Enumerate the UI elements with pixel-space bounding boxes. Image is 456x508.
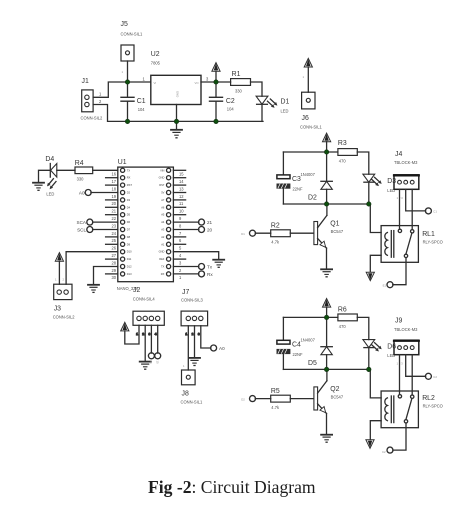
- svg-text:D8: D8: [127, 235, 131, 239]
- wire U2 GND down: [176, 105, 178, 122]
- wire J4 pin2 to node C1: [406, 189, 426, 211]
- transistor Q2 BC547: [314, 369, 344, 434]
- svg-text:R4: R4: [75, 160, 84, 167]
- svg-text:16: 16: [149, 361, 153, 365]
- node C2: [425, 373, 437, 379]
- svg-text:RX: RX: [127, 176, 131, 180]
- wire J7 pin3 to A0 node: [201, 326, 211, 348]
- svg-text:2: 2: [192, 332, 194, 336]
- node A0: [79, 190, 91, 196]
- ground left of U1: [88, 285, 99, 293]
- svg-text:2: 2: [179, 268, 182, 273]
- connector J5 CONN-SIL1: [121, 21, 144, 74]
- regulator U2 7805: [143, 51, 210, 105]
- svg-text:Q2: Q2: [330, 386, 339, 393]
- svg-text:E1: E1: [383, 284, 387, 288]
- svg-text:D1: D1: [281, 99, 290, 106]
- svg-text:1: 1: [143, 77, 146, 82]
- U1 inner pin names: [127, 168, 165, 276]
- relay RL1 RLY-SPCO: [381, 226, 443, 263]
- svg-text:A4: A4: [161, 220, 165, 224]
- svg-text:VI: VI: [154, 81, 157, 85]
- svg-text:J9: J9: [395, 318, 402, 325]
- junction node C2 bottom: [214, 119, 218, 123]
- wire D3 to bottom rail: [368, 182, 370, 204]
- svg-text:D10: D10: [127, 250, 132, 254]
- node A0 right: [211, 345, 225, 351]
- node 21: [199, 219, 213, 225]
- svg-text:GND: GND: [159, 176, 165, 180]
- svg-text:J4: J4: [395, 151, 402, 158]
- svg-text:21: 21: [207, 220, 213, 225]
- svg-text:GND: GND: [176, 91, 180, 97]
- svg-text:J8: J8: [182, 391, 189, 398]
- svg-text:20: 20: [111, 201, 116, 206]
- svg-text:1: 1: [183, 364, 185, 368]
- svg-text:A3: A3: [161, 228, 165, 232]
- svg-text:22NF: 22NF: [293, 352, 304, 357]
- svg-text:C2: C2: [382, 450, 386, 454]
- svg-text:C2: C2: [433, 375, 437, 379]
- capacitor C2 104: [210, 82, 235, 121]
- svg-text:D6: D6: [387, 343, 396, 350]
- svg-text:14: 14: [179, 179, 184, 184]
- wire J1 pin2 to ground rail: [93, 105, 263, 122]
- junction relay1 rail bottom D2: [324, 202, 328, 206]
- svg-text:CONN-SIL2: CONN-SIL2: [81, 116, 104, 121]
- wire R1 to D1: [251, 82, 263, 96]
- svg-text:D7: D7: [127, 228, 131, 232]
- svg-text:Q1: Q1: [330, 221, 339, 228]
- junction relay2 rail top: [324, 315, 328, 319]
- svg-text:J2: J2: [133, 287, 140, 294]
- resistor R1 330: [231, 71, 251, 93]
- svg-text:R6: R6: [338, 306, 347, 313]
- wire U1 pin27 to J3: [66, 252, 118, 285]
- svg-text:D11: D11: [127, 257, 132, 261]
- ground under J7: [189, 358, 200, 366]
- svg-text:U1: U1: [118, 159, 127, 166]
- wire RL2 bottom pin to node E2: [393, 423, 406, 450]
- svg-text:RLY-SPCO: RLY-SPCO: [423, 239, 443, 244]
- svg-text:TBLOCK-M3: TBLOCK-M3: [394, 160, 418, 165]
- svg-text:1: 1: [186, 332, 188, 336]
- svg-text:20: 20: [207, 227, 213, 232]
- connector J2 CONN-SIL4: [133, 287, 165, 336]
- svg-text:GND: GND: [159, 250, 165, 254]
- ground at D4: [33, 183, 44, 191]
- capacitor C1 104: [121, 82, 146, 121]
- wire J4 pin3 to RL1 NO: [411, 189, 413, 229]
- svg-text:RL2: RL2: [422, 395, 435, 402]
- svg-text:R2: R2: [271, 223, 280, 230]
- svg-text:17: 17: [111, 179, 116, 184]
- svg-text:1: 1: [122, 70, 124, 74]
- svg-text:104: 104: [227, 107, 235, 112]
- wire J9 pin3 to RL2 NO: [411, 355, 413, 395]
- power arrow at J2 pin1: [121, 322, 139, 344]
- svg-text:104: 104: [138, 107, 146, 112]
- svg-text:C2: C2: [226, 98, 235, 105]
- svg-text:TBLOCK-M3: TBLOCK-M3: [394, 327, 418, 332]
- svg-text:LED: LED: [281, 109, 289, 114]
- svg-text:2: 2: [63, 278, 65, 282]
- wire U1 pin4 to right ground: [173, 252, 218, 260]
- svg-text:U2: U2: [151, 51, 160, 58]
- svg-text:19: 19: [111, 194, 116, 199]
- svg-text:330: 330: [235, 88, 243, 93]
- wire J4 pin1 to RL1 common: [399, 189, 401, 229]
- wire RL1 bottom pin to node E1: [393, 258, 406, 285]
- svg-text:A0: A0: [219, 346, 225, 351]
- wire SCL to U1: [93, 229, 118, 231]
- svg-text:4.7k: 4.7k: [271, 405, 280, 410]
- svg-text:11: 11: [179, 201, 184, 206]
- svg-text:LED: LED: [46, 191, 54, 196]
- svg-text:R1: R1: [232, 71, 241, 78]
- wire D4 cathode to ground: [39, 170, 51, 182]
- wire R6 to D6: [357, 317, 369, 339]
- wire RL2 coil bottom to down arrow: [370, 421, 381, 440]
- connector J6 CONN-SIL1: [300, 92, 323, 129]
- svg-text:J5: J5: [121, 21, 128, 28]
- wire J9 pin1 to RL2 common: [399, 355, 401, 395]
- wire R3 to D3: [357, 152, 369, 174]
- svg-text:1N4007: 1N4007: [301, 172, 316, 177]
- svg-text:D13: D13: [127, 272, 132, 276]
- wire node21 to U1 pin8: [173, 221, 198, 223]
- svg-text:Fig -2: Circuit Diagram: Fig -2: Circuit Diagram: [148, 477, 316, 497]
- junction node U2 gnd: [174, 119, 178, 123]
- svg-text:23: 23: [111, 223, 116, 228]
- svg-text:SCA: SCA: [77, 220, 87, 225]
- wire SCA to U1: [93, 221, 118, 223]
- connector J8 CONN-SIL1: [181, 364, 204, 405]
- svg-text:4: 4: [179, 253, 182, 258]
- svg-text:D4: D4: [45, 156, 54, 163]
- diode D2 1N4007: [301, 152, 333, 204]
- svg-text:D3: D3: [387, 178, 396, 185]
- wire J2 pin3 to node: [150, 325, 152, 353]
- svg-text:CONN-SIL1: CONN-SIL1: [181, 400, 204, 405]
- svg-text:D3: D3: [127, 198, 131, 202]
- svg-text:CONN-SIL4: CONN-SIL4: [133, 297, 156, 302]
- junction relay1 rail bottom D3: [367, 202, 371, 206]
- junction relay2 rail bottom D5: [324, 367, 328, 371]
- svg-text:D12: D12: [127, 265, 132, 269]
- node SCA: [77, 219, 93, 225]
- svg-text:24: 24: [111, 231, 116, 236]
- svg-text:TX: TX: [127, 168, 131, 172]
- wire Tx to U1 pin2: [173, 266, 198, 268]
- svg-text:J7: J7: [182, 289, 189, 296]
- svg-text:RL1: RL1: [422, 231, 435, 238]
- LED D1: [256, 96, 289, 113]
- svg-text:D4: D4: [127, 205, 131, 209]
- svg-text:RST: RST: [127, 183, 133, 187]
- svg-text:R5: R5: [271, 388, 280, 395]
- wire rail to RL1 coil top: [369, 204, 381, 233]
- node input circle relay2: [241, 396, 255, 402]
- svg-text:D5: D5: [308, 360, 317, 367]
- wire J5 to +5V rail: [127, 61, 129, 82]
- wire U1 pin29 to ground: [94, 267, 118, 285]
- svg-text:A6: A6: [161, 205, 165, 209]
- svg-text:A2: A2: [161, 235, 165, 239]
- LED D3: [363, 174, 396, 193]
- wire RL1 coil bottom to down arrow: [370, 255, 381, 271]
- svg-text:R3: R3: [338, 140, 347, 147]
- svg-text:CONN-SIL1: CONN-SIL1: [121, 32, 144, 37]
- svg-text:D2: D2: [127, 191, 131, 195]
- svg-text:VIN: VIN: [160, 168, 164, 172]
- svg-text:7805: 7805: [151, 61, 161, 66]
- wire R2 to Q1 base: [290, 232, 313, 234]
- svg-text:26: 26: [111, 246, 116, 251]
- svg-text:3: 3: [198, 332, 200, 336]
- wire J1 pin1 to rail: [93, 82, 151, 97]
- svg-text:D2: D2: [241, 397, 245, 401]
- svg-text:J3: J3: [54, 306, 61, 313]
- svg-text:470: 470: [339, 159, 347, 164]
- resistor R4 330: [75, 160, 93, 181]
- connector J1 CONN-SIL2: [81, 78, 104, 121]
- svg-text:SCL: SCL: [77, 227, 86, 232]
- wire D1 to ground rail: [261, 104, 263, 121]
- svg-text:C1: C1: [137, 98, 146, 105]
- svg-text:4.7k: 4.7k: [271, 240, 280, 245]
- svg-text:BC547: BC547: [331, 229, 344, 234]
- svg-text:D2: D2: [308, 195, 317, 202]
- svg-text:2: 2: [142, 332, 144, 336]
- node SCL: [77, 227, 93, 233]
- svg-text:RX: RX: [161, 272, 165, 276]
- svg-text:CONN-SIL2: CONN-SIL2: [53, 315, 76, 320]
- svg-text:RLY-SPCO: RLY-SPCO: [423, 404, 443, 409]
- svg-text:D5: D5: [127, 213, 131, 217]
- resistor R2 4.7k: [255, 223, 290, 245]
- ground under Q2: [321, 435, 332, 443]
- svg-text:TX: TX: [161, 265, 165, 269]
- svg-text:3: 3: [149, 332, 151, 336]
- wire relay1 top rail: [283, 151, 338, 153]
- svg-text:330: 330: [77, 176, 85, 181]
- junction node C2 top: [214, 80, 218, 84]
- svg-text:4: 4: [155, 332, 157, 336]
- wire J7 pin1 to J8: [187, 326, 189, 370]
- capacitor C4 22NF: [277, 317, 303, 369]
- svg-text:9: 9: [179, 216, 182, 221]
- wire R5 to Q2 base: [290, 398, 313, 400]
- power arrow above J6: [303, 58, 313, 92]
- relay RL2 RLY-SPCO: [381, 391, 443, 428]
- svg-text:2: 2: [99, 99, 102, 104]
- terminal block J9 TBLOCK-M3: [394, 318, 419, 366]
- wire node20 to U1 pin7: [173, 229, 198, 231]
- svg-text:J6: J6: [302, 115, 309, 122]
- node E2: [382, 447, 393, 454]
- svg-text:1: 1: [303, 75, 305, 79]
- LED D6: [363, 340, 396, 359]
- svg-text:28: 28: [111, 260, 116, 265]
- svg-text:470: 470: [339, 324, 347, 329]
- wire J9 pin2 to node C2: [406, 355, 426, 377]
- svg-text:8: 8: [179, 223, 182, 228]
- svg-text:CONN-SIL3: CONN-SIL3: [181, 298, 204, 303]
- svg-text:15: 15: [179, 172, 184, 177]
- svg-text:C1: C1: [433, 210, 437, 214]
- svg-text:1: 1: [99, 92, 102, 97]
- junction node J5/C1 on rail: [125, 80, 129, 84]
- power arrow relay2: [323, 299, 331, 318]
- diode D5 1N4007: [301, 317, 333, 369]
- ground under U2: [171, 121, 182, 137]
- svg-text:CONN-SIL1: CONN-SIL1: [300, 125, 323, 130]
- node 20: [199, 227, 213, 233]
- svg-text:Rx: Rx: [207, 272, 213, 277]
- wire J2 pin2 to ground: [144, 325, 146, 361]
- U1 left pin stubs and circles: [106, 168, 125, 276]
- wire relay2 top rail: [283, 316, 338, 318]
- ground under J2: [140, 362, 151, 370]
- connector J3 CONN-SIL2: [53, 278, 76, 320]
- svg-text:21: 21: [111, 209, 116, 214]
- svg-text:6: 6: [179, 238, 182, 243]
- down arrow under RL2 coil: [366, 440, 374, 449]
- svg-text:VO: VO: [194, 81, 199, 85]
- svg-text:10: 10: [179, 209, 184, 214]
- svg-text:1: 1: [179, 275, 182, 280]
- power arrow at J3 pin1: [55, 253, 63, 285]
- wire D4 anode to R4: [57, 169, 75, 171]
- power arrow relay1: [323, 133, 331, 152]
- svg-text:A1: A1: [161, 242, 165, 246]
- down arrow under RL1 coil: [366, 272, 374, 280]
- node input circle relay1: [241, 230, 255, 236]
- mcu U1 NANO box: [117, 159, 174, 291]
- svg-text:D1: D1: [241, 232, 245, 236]
- transistor Q1 BC547: [314, 204, 344, 269]
- svg-text:18: 18: [111, 186, 116, 191]
- svg-text:27: 27: [111, 253, 116, 258]
- svg-text:D6: D6: [127, 220, 131, 224]
- wire relay2 bottom rail: [283, 368, 368, 370]
- node Rx: [199, 271, 214, 277]
- U1 left pin numbers 16-30: [111, 172, 116, 281]
- svg-text:A0: A0: [79, 190, 85, 195]
- svg-text:A5: A5: [161, 213, 165, 217]
- svg-text:15: 15: [155, 361, 159, 365]
- svg-text:25: 25: [111, 238, 116, 243]
- svg-text:22: 22: [111, 216, 116, 221]
- power arrow +5V at C2: [212, 63, 220, 82]
- wire relay1 bottom rail: [283, 203, 368, 205]
- resistor R5 4.7k: [255, 388, 290, 410]
- svg-text:BC547: BC547: [331, 395, 344, 400]
- svg-text:29: 29: [111, 268, 116, 273]
- svg-text:3: 3: [179, 260, 182, 265]
- junction relay1 rail top: [324, 150, 328, 154]
- svg-text:C3: C3: [292, 176, 301, 183]
- wire rail to RL2 coil top: [369, 369, 381, 398]
- svg-text:3: 3: [206, 77, 209, 82]
- wire U2 VO to node: [201, 81, 231, 83]
- junction relay2 rail bottom D6: [367, 367, 371, 371]
- svg-text:J1: J1: [82, 78, 89, 85]
- node under J2 pin4: [155, 353, 161, 364]
- capacitor C3 22NF: [277, 152, 303, 204]
- svg-text:RST: RST: [159, 183, 165, 187]
- resistor R3 470: [338, 140, 357, 164]
- wire J7 pin2 to ground: [194, 326, 196, 358]
- svg-text:13: 13: [179, 186, 184, 191]
- node C1: [425, 208, 437, 214]
- node under J2 pin3: [148, 353, 154, 364]
- svg-text:12: 12: [179, 194, 184, 199]
- svg-text:A7: A7: [161, 198, 165, 202]
- ground under Q1: [321, 269, 332, 277]
- wire D6 to bottom rail: [368, 348, 370, 370]
- connector J7 CONN-SIL3: [181, 289, 208, 336]
- terminal block J4 TBLOCK-M3: [394, 151, 419, 200]
- svg-text:1: 1: [136, 332, 138, 336]
- svg-text:D9: D9: [127, 242, 131, 246]
- wire A0 to U1: [91, 192, 118, 194]
- svg-text:5V: 5V: [161, 191, 164, 195]
- U1 right pin stubs and circles: [167, 168, 186, 276]
- ground right of U1: [213, 260, 224, 268]
- svg-text:5: 5: [179, 246, 182, 251]
- wire R4 to U1 pin16: [93, 169, 118, 171]
- wire J2 pin4 to node: [157, 325, 159, 353]
- resistor R6 470: [338, 306, 357, 329]
- svg-text:C4: C4: [292, 341, 301, 348]
- svg-text:30: 30: [111, 275, 116, 280]
- svg-text:REF: REF: [159, 257, 165, 261]
- junction node C1 bottom: [125, 119, 129, 123]
- LED D4: [45, 156, 56, 196]
- wire Rx to U1 pin1: [173, 273, 198, 275]
- U1 right pin numbers 15-1: [179, 172, 184, 281]
- svg-text:Tx: Tx: [207, 264, 213, 269]
- svg-text:1: 1: [55, 278, 57, 282]
- svg-text:1N4007: 1N4007: [301, 337, 316, 342]
- node Tx: [199, 264, 213, 270]
- svg-text:7: 7: [179, 231, 182, 236]
- svg-text:22NF: 22NF: [293, 187, 304, 192]
- node E1: [383, 282, 393, 288]
- svg-text:16: 16: [111, 172, 116, 177]
